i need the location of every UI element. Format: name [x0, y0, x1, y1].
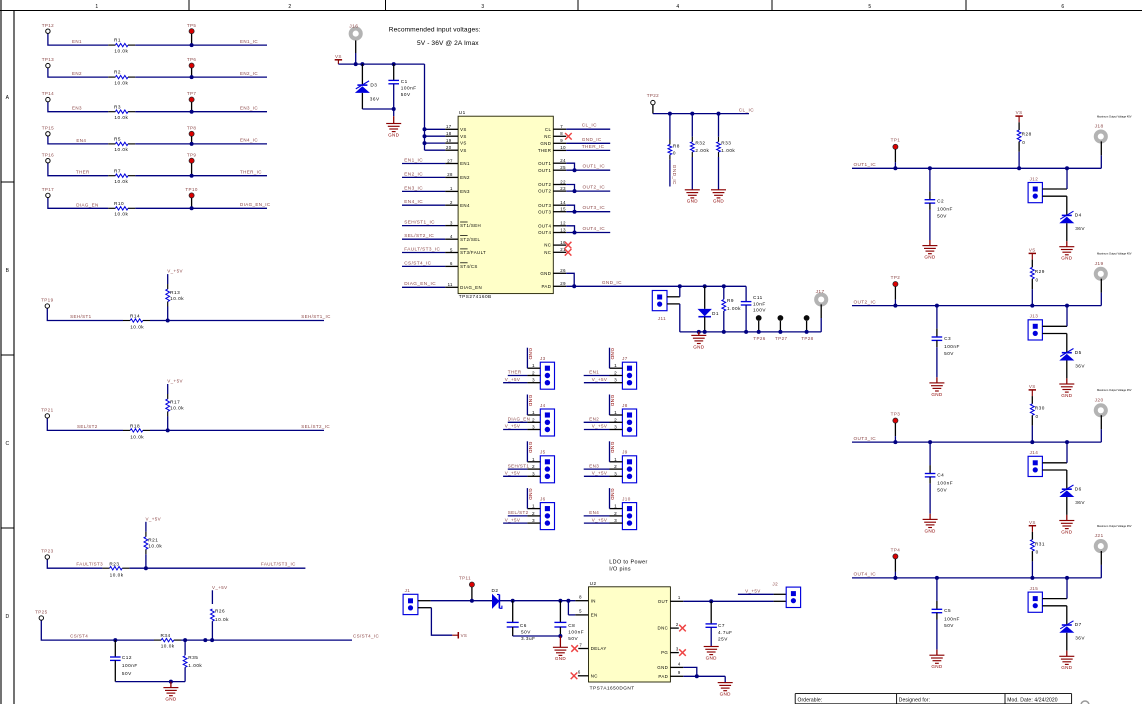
test point TP21 — [41, 408, 53, 419]
svg-text:GND: GND — [1061, 665, 1072, 670]
svg-text:EN2: EN2 — [72, 71, 82, 76]
J15 pin2 wire — [1042, 606, 1066, 625]
label CS/ST4_IC — [353, 634, 380, 639]
svg-text:GND: GND — [527, 395, 533, 407]
svg-text:TP12: TP12 — [42, 23, 54, 28]
test point TP8 — [187, 125, 197, 144]
junction C7 — [709, 599, 713, 603]
svg-text:R35: R35 — [188, 655, 198, 660]
svg-text:C7: C7 — [718, 623, 725, 628]
svg-text:TP13: TP13 — [42, 57, 54, 62]
svg-text:NC: NC — [544, 250, 551, 255]
svg-text:GND: GND — [527, 442, 533, 454]
junction TP6 — [190, 75, 194, 79]
svg-text:SEH/ST1_IC: SEH/ST1_IC — [404, 220, 435, 225]
svg-text:GND: GND — [540, 271, 551, 276]
ground R33 — [711, 190, 726, 204]
svg-text:36V: 36V — [1075, 363, 1085, 368]
svg-text:EN4: EN4 — [76, 138, 86, 143]
svg-text:1: 1 — [614, 457, 617, 462]
label GND_IC pad net — [602, 280, 622, 285]
svg-text:ST2/SEL: ST2/SEL — [460, 237, 480, 242]
test point TP22 — [647, 93, 659, 105]
J10 pin1 GND stub — [609, 488, 623, 509]
svg-text:22: 22 — [560, 179, 566, 184]
connector J2 — [772, 582, 800, 608]
svg-text:Mod. Date: 4/24/2020: Mod. Date: 4/24/2020 — [1007, 697, 1058, 703]
svg-text:TP16: TP16 — [42, 152, 54, 157]
resistor R1 — [108, 38, 135, 54]
J3 pin3 V_+5V — [503, 377, 540, 383]
svg-text:2: 2 — [532, 417, 535, 422]
svg-text:2: 2 — [676, 622, 679, 627]
svg-text:THER_IC: THER_IC — [582, 144, 605, 149]
label SEL/ST2_IC — [301, 424, 330, 429]
test point TP23 — [41, 549, 53, 560]
test point TP12 — [42, 23, 54, 34]
svg-text:OUT2: OUT2 — [538, 182, 551, 187]
U2 pin 5 EN — [579, 609, 597, 618]
label OUT2_IC — [854, 299, 877, 304]
ground D4 — [1059, 247, 1074, 261]
svg-text:VS: VS — [460, 127, 467, 132]
svg-text:GND: GND — [609, 488, 615, 500]
U1 pins 22/23 OUT2 — [538, 179, 610, 193]
U2 pin 2 DNC — [658, 622, 686, 631]
svg-text:GND: GND — [540, 141, 551, 146]
svg-text:TP2: TP2 — [891, 275, 901, 280]
svg-text:10.0k: 10.0k — [110, 572, 124, 577]
svg-text:J10: J10 — [622, 496, 631, 501]
svg-text:50V: 50V — [401, 92, 411, 97]
J5 pin1 GND stub — [527, 441, 541, 462]
junction bus J16 — [354, 62, 358, 66]
svg-text:EN3_IC: EN3_IC — [240, 105, 258, 110]
svg-text:0: 0 — [1036, 550, 1039, 555]
test point TP11 — [459, 576, 474, 603]
svg-text:DIAG_EN_IC: DIAG_EN_IC — [240, 202, 271, 207]
svg-text:GND: GND — [555, 656, 566, 661]
svg-text:GND: GND — [657, 665, 668, 670]
svg-text:3: 3 — [481, 4, 484, 10]
junction C8 bottom — [558, 634, 562, 638]
svg-text:1: 1 — [532, 363, 535, 368]
U1 pin 26 GND — [540, 268, 574, 286]
wire SEH/ST1 net — [47, 308, 324, 320]
svg-text:6: 6 — [1061, 4, 1064, 10]
J6 pin numbers — [532, 504, 535, 523]
svg-text:8: 8 — [579, 595, 582, 600]
svg-text:1.00k: 1.00k — [188, 663, 202, 668]
connector J3 — [540, 356, 555, 389]
U1 pin 16 NC — [544, 240, 571, 249]
svg-text:Maximum Output Voltage 45V: Maximum Output Voltage 45V — [1097, 114, 1132, 118]
svg-text:10nF: 10nF — [753, 301, 766, 306]
svg-text:GND: GND — [527, 348, 533, 360]
note LDO — [609, 560, 647, 573]
junction CS a — [203, 638, 207, 642]
svg-text:SEL/ST2: SEL/ST2 — [508, 510, 529, 515]
svg-text:NC: NC — [544, 134, 551, 139]
svg-text:25V: 25V — [718, 637, 728, 642]
junction C4 — [928, 440, 932, 444]
power VS R28 — [1015, 110, 1022, 122]
svg-text:GND_IC: GND_IC — [602, 280, 622, 285]
svg-text:THER: THER — [76, 170, 90, 175]
power VS R31 — [1029, 520, 1036, 532]
svg-text:D6: D6 — [1075, 486, 1082, 491]
svg-text:1: 1 — [532, 457, 535, 462]
svg-text:SEL/ST2_IC: SEL/ST2_IC — [404, 233, 434, 238]
svg-text:OUT3_IC: OUT3_IC — [854, 436, 877, 441]
power VS LDO — [452, 632, 467, 639]
J4 pin2 DIAG_EN — [508, 417, 541, 423]
wire EN drop — [568, 601, 588, 615]
svg-text:TP4: TP4 — [891, 547, 901, 552]
junction TP9 — [190, 174, 194, 178]
resistor R18 — [123, 424, 150, 440]
connector J6 — [540, 496, 555, 529]
svg-text:1: 1 — [614, 504, 617, 509]
label EN2 — [72, 71, 82, 76]
connector J12 — [1028, 176, 1042, 202]
svg-text:C: C — [6, 441, 10, 447]
svg-text:TP17: TP17 — [42, 187, 54, 192]
svg-text:3: 3 — [614, 425, 617, 430]
label EN1_IC — [240, 39, 258, 44]
svg-text:3: 3 — [532, 425, 535, 430]
connector J10 — [622, 496, 637, 529]
svg-text:J13: J13 — [1030, 314, 1039, 319]
U2 pin 7 DELAY — [571, 642, 606, 651]
J8 pin numbers — [614, 410, 617, 430]
svg-text:C1: C1 — [401, 79, 408, 84]
svg-text:U1: U1 — [459, 110, 466, 115]
svg-text:50V: 50V — [568, 636, 578, 641]
svg-text:OUT4_IC: OUT4_IC — [583, 226, 606, 231]
ground C3 — [929, 377, 944, 397]
J9 pin numbers — [614, 457, 617, 477]
junction R35 — [183, 638, 187, 642]
diode D1 — [698, 286, 720, 332]
svg-text:OUT4_IC: OUT4_IC — [854, 572, 877, 577]
svg-text:DIAG_EN: DIAG_EN — [508, 417, 530, 422]
svg-text:OUT2_IC: OUT2_IC — [583, 185, 606, 190]
svg-text:EN2: EN2 — [460, 175, 470, 180]
junction bus C1 — [392, 62, 396, 66]
svg-text:R23: R23 — [109, 561, 119, 566]
svg-text:TP23: TP23 — [41, 549, 53, 554]
U2 pin 4 GND — [657, 661, 697, 676]
svg-text:D5: D5 — [1075, 350, 1082, 355]
junction C3 — [935, 304, 939, 308]
junction rail GND — [697, 330, 701, 334]
resistor R35 — [183, 640, 202, 682]
svg-text:6: 6 — [450, 261, 453, 266]
svg-text:GND: GND — [925, 528, 936, 533]
svg-text:50V: 50V — [937, 487, 947, 492]
wire DIAG_EN net — [48, 198, 267, 209]
svg-text:J12: J12 — [1030, 176, 1039, 181]
svg-text:TP6: TP6 — [187, 57, 197, 62]
svg-text:GND: GND — [527, 488, 533, 500]
ground R32 — [685, 190, 700, 204]
svg-text:B: B — [6, 268, 10, 274]
resistor R9 — [722, 286, 741, 332]
power VS input — [335, 54, 342, 64]
resistor R34 — [154, 633, 181, 648]
J3 pin2 THER — [508, 370, 541, 376]
svg-text:36V: 36V — [1075, 500, 1085, 505]
svg-text:20: 20 — [446, 145, 452, 150]
svg-text:R28: R28 — [1022, 132, 1032, 137]
svg-text:U2: U2 — [590, 581, 597, 586]
svg-text:VS: VS — [460, 141, 467, 146]
svg-text:R8: R8 — [673, 143, 680, 148]
svg-text:GND: GND — [388, 132, 399, 137]
svg-text:26: 26 — [560, 268, 566, 273]
wire EN3 net — [48, 102, 267, 112]
svg-text:OUT1: OUT1 — [538, 168, 551, 173]
label CS/ST4 — [70, 634, 88, 639]
U2 pin 8 IN — [579, 595, 596, 604]
J4 pin1 GND stub — [527, 395, 541, 416]
svg-text:TP9: TP9 — [187, 152, 197, 157]
svg-text:VS: VS — [460, 148, 467, 153]
svg-text:DIAG_EN: DIAG_EN — [460, 285, 482, 290]
svg-text:DIAG_EN: DIAG_EN — [76, 202, 98, 207]
power V_+5V R17 — [167, 379, 183, 384]
U2 pin 1 OUT — [658, 595, 786, 604]
svg-text:J18: J18 — [1095, 124, 1104, 130]
capacitor C5 — [932, 578, 960, 650]
test point TP9 — [187, 152, 197, 175]
svg-text:GND: GND — [1061, 256, 1072, 261]
svg-text:GND: GND — [706, 655, 717, 660]
svg-text:SEH/ST1: SEH/ST1 — [508, 463, 530, 468]
wire CL_IC net — [653, 105, 749, 114]
svg-text:J19: J19 — [1095, 261, 1104, 267]
svg-text:EN4_IC: EN4_IC — [240, 138, 258, 143]
svg-text:EN3: EN3 — [589, 463, 599, 468]
svg-text:OUT4: OUT4 — [538, 223, 551, 228]
svg-text:50V: 50V — [521, 630, 531, 635]
ground CS GND — [163, 682, 178, 702]
svg-text:0: 0 — [1036, 414, 1039, 419]
svg-text:PAD: PAD — [541, 284, 551, 289]
J5 pin2 SEH/ST1 — [508, 463, 541, 469]
svg-text:EN: EN — [591, 613, 598, 618]
regulator U2 body — [589, 581, 671, 690]
svg-text:100nF: 100nF — [944, 344, 960, 349]
zener D7 — [1059, 621, 1085, 657]
wire J1 pin2 VS — [418, 608, 452, 636]
J5 pin3 V_+5V — [503, 471, 540, 477]
wire EN1 net — [48, 33, 267, 45]
power V_+5V R13 — [167, 269, 183, 274]
svg-text:24: 24 — [560, 158, 566, 163]
U2 pin 6 NC — [571, 670, 598, 679]
svg-text:TP7: TP7 — [187, 91, 197, 96]
svg-text:SEH/ST1_IC: SEH/ST1_IC — [301, 314, 331, 319]
J10 pin numbers — [614, 504, 617, 523]
svg-text:10.0k: 10.0k — [114, 80, 128, 85]
label GND_IC vertical — [672, 165, 677, 185]
junction R26 — [210, 638, 214, 642]
svg-text:EN2_IC: EN2_IC — [240, 71, 258, 76]
svg-text:CL_IC: CL_IC — [739, 107, 754, 112]
svg-text:EN4_IC: EN4_IC — [404, 199, 423, 204]
U1 pin 8 NC — [544, 131, 572, 140]
J4 pin3 V_+5V — [503, 424, 540, 430]
svg-text:V_+5V: V_+5V — [167, 269, 183, 274]
svg-text:C6: C6 — [520, 623, 527, 628]
power V_+5V R26 — [212, 585, 228, 590]
junction EN drop — [566, 599, 570, 603]
test point TP27 — [775, 315, 787, 341]
svg-text:3: 3 — [676, 647, 679, 652]
svg-text:R21: R21 — [148, 538, 158, 543]
test point TP3 — [891, 412, 901, 445]
svg-text:R7: R7 — [114, 168, 121, 173]
svg-text:NC: NC — [591, 673, 598, 678]
svg-text:Orderable:: Orderable: — [798, 697, 823, 703]
svg-text:VS: VS — [1029, 520, 1036, 525]
U1 pin 29 PAD — [541, 281, 679, 289]
junction C1 bottom — [392, 107, 396, 111]
J13 pin2 wire — [1042, 334, 1066, 353]
U1 pin 5 ST3/FAULT — [402, 246, 486, 255]
svg-text:10.0k: 10.0k — [114, 179, 128, 184]
svg-text:TP8: TP8 — [187, 125, 197, 130]
svg-text:OUT3_IC: OUT3_IC — [583, 205, 606, 210]
capacitor C2 — [925, 168, 953, 240]
label EN3_IC — [240, 105, 258, 110]
junction rail R9 — [722, 330, 726, 334]
wire GND_IC rail — [680, 331, 821, 333]
svg-text:0: 0 — [673, 150, 676, 155]
connector J11 — [652, 291, 667, 322]
svg-text:V_+5V: V_+5V — [505, 424, 521, 429]
ground C8 — [553, 636, 568, 661]
svg-text:V_+5V: V_+5V — [146, 516, 162, 521]
J14 pin2 wire — [1042, 470, 1066, 489]
diode D2 — [492, 588, 502, 609]
svg-text:V_+5V: V_+5V — [212, 585, 228, 590]
svg-text:0: 0 — [1036, 277, 1039, 282]
svg-text:10.0k: 10.0k — [130, 325, 144, 330]
svg-text:36V: 36V — [370, 97, 380, 102]
test point TP7 — [187, 91, 197, 112]
zener D6 — [1059, 485, 1085, 521]
svg-text:J2: J2 — [772, 582, 778, 587]
svg-text:TP22: TP22 — [647, 93, 659, 98]
svg-text:10.0k: 10.0k — [170, 406, 184, 411]
svg-text:CS/ST4_IC: CS/ST4_IC — [353, 634, 380, 639]
svg-text:50V: 50V — [944, 623, 954, 628]
svg-text:J21: J21 — [1095, 533, 1104, 539]
svg-text:1.00k: 1.00k — [727, 306, 741, 311]
svg-text:R33: R33 — [721, 141, 731, 146]
svg-text:J20: J20 — [1095, 397, 1104, 403]
J7 pin2 EN1 — [584, 370, 623, 376]
resistor R5 — [108, 137, 135, 153]
svg-text:GND: GND — [931, 664, 942, 669]
ground C7 — [704, 647, 719, 661]
test point TP26 — [753, 315, 765, 341]
svg-text:TP10: TP10 — [185, 187, 197, 192]
U1 pin 7 CL — [545, 123, 610, 132]
svg-text:OUT1: OUT1 — [538, 161, 551, 166]
svg-text:8: 8 — [560, 131, 563, 136]
svg-text:10: 10 — [560, 145, 566, 150]
svg-text:V_+5V: V_+5V — [167, 379, 183, 384]
U2 pin 9 PAD — [658, 670, 725, 679]
svg-text:3: 3 — [614, 471, 617, 476]
svg-text:3: 3 — [450, 220, 453, 225]
test point TP10 — [185, 187, 197, 208]
svg-text:TP19: TP19 — [41, 298, 53, 303]
svg-text:GND: GND — [165, 697, 176, 702]
U1 pin 1 EN3 — [402, 185, 470, 194]
svg-text:A: A — [6, 95, 10, 101]
svg-text:10.0k: 10.0k — [170, 296, 184, 301]
svg-text:J5: J5 — [540, 450, 546, 455]
svg-text:2: 2 — [532, 371, 535, 376]
svg-text:THER: THER — [538, 148, 551, 153]
zener D3 — [355, 64, 380, 109]
svg-text:3: 3 — [532, 518, 535, 523]
svg-text:CS/ST4: CS/ST4 — [70, 634, 88, 639]
test point TP28 — [801, 315, 813, 341]
connector J21 — [1095, 533, 1106, 565]
resistor R26 — [211, 590, 230, 640]
svg-text:J15: J15 — [1030, 586, 1039, 591]
svg-text:14: 14 — [560, 200, 566, 205]
svg-text:3: 3 — [532, 471, 535, 476]
junction C6 — [511, 599, 515, 603]
svg-text:J3: J3 — [540, 356, 546, 361]
svg-text:1: 1 — [532, 410, 535, 415]
junction J11 drop — [678, 284, 682, 288]
J3 pin1 GND stub — [527, 348, 541, 369]
svg-text:29: 29 — [560, 281, 566, 286]
svg-text:CL: CL — [545, 127, 552, 132]
J9 pin1 GND stub — [609, 441, 623, 462]
capacitor C12 — [110, 640, 138, 682]
svg-text:10.0k: 10.0k — [130, 435, 144, 440]
svg-text:EN3: EN3 — [72, 106, 82, 111]
svg-text:28: 28 — [447, 172, 453, 177]
svg-text:V_+5V: V_+5V — [592, 471, 608, 476]
label FAULT/ST3_IC — [261, 562, 296, 567]
U1 pin 6 ST4/CS — [402, 260, 478, 269]
svg-text:15: 15 — [560, 207, 566, 212]
svg-text:19: 19 — [446, 138, 452, 143]
svg-text:R2: R2 — [114, 70, 121, 75]
label EN3 — [72, 106, 82, 111]
junction bus D3 — [360, 62, 364, 66]
junction R8 — [668, 112, 672, 116]
J8 pin1 GND stub — [609, 395, 623, 416]
svg-text:EN1_IC: EN1_IC — [404, 157, 423, 162]
svg-text:D3: D3 — [370, 83, 377, 88]
capacitor C6 — [507, 601, 536, 641]
junction R21 — [144, 566, 148, 570]
J14 pin1 wire — [1042, 440, 1069, 463]
U1 pin 27 EN1 — [402, 157, 470, 166]
svg-text:J11: J11 — [658, 316, 666, 321]
